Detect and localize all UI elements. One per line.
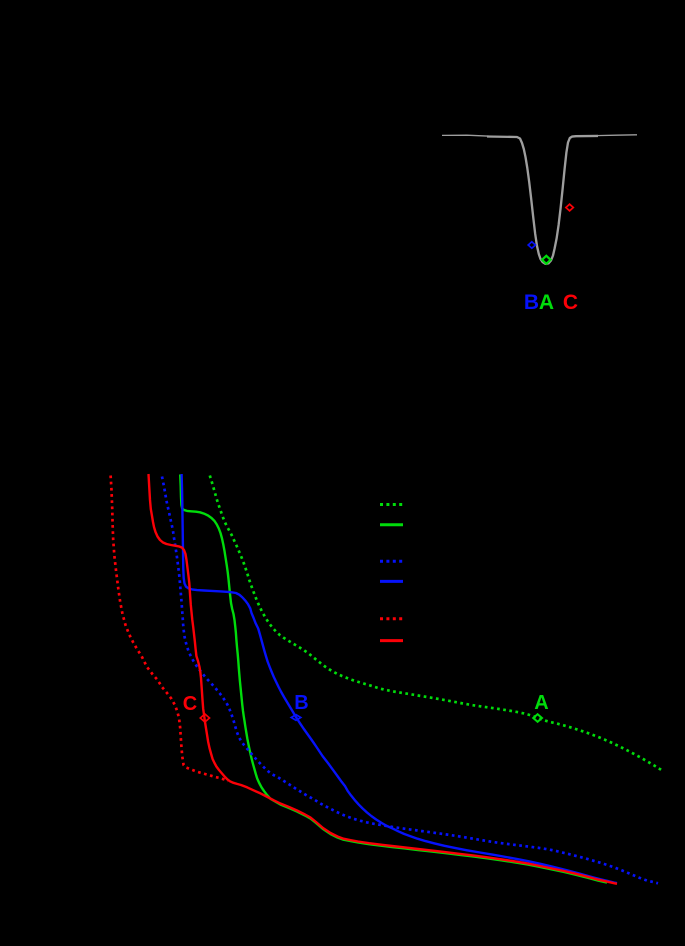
inset light curve: transit dip (thick) xyxy=(487,136,598,264)
svg-text:C: C xyxy=(183,693,197,715)
svg-text:A: A xyxy=(539,291,554,314)
legend line: green solid xyxy=(380,523,403,526)
inset marker: green diamond (A, bottom of transit) xyxy=(542,256,551,264)
main curve: red dotted (component C, no-extinction model) xyxy=(111,476,228,782)
svg-text:C: C xyxy=(563,291,578,314)
inset marker: blue diamond (B contact point) xyxy=(528,242,535,248)
main marker: red diamond on red solid curve xyxy=(200,714,209,722)
svg-text:B: B xyxy=(524,291,539,314)
legend line: red dotted xyxy=(380,617,403,620)
inset light curve: left continuum (thin) xyxy=(442,135,490,136)
svg-text:B: B xyxy=(294,692,308,714)
main curve: blue dotted (component B, no-extinction model) xyxy=(162,477,658,884)
legend line: red solid xyxy=(380,639,403,642)
main curve: red solid (component C) xyxy=(149,474,618,884)
legend line: green dotted xyxy=(380,503,403,506)
main marker: blue diamond on blue solid curve xyxy=(291,715,301,721)
legend line: blue dotted xyxy=(380,560,403,563)
legend line: blue solid xyxy=(380,580,403,583)
main curve: green dotted (component A, no-extinction model) xyxy=(210,476,663,772)
main marker: green diamond on green dotted curve xyxy=(533,714,542,722)
main curve: blue solid (component B) xyxy=(182,474,617,883)
svg-text:A: A xyxy=(534,692,548,714)
inset light curve: right continuum (thin) xyxy=(596,134,637,137)
main curve: green solid (component A) xyxy=(180,475,607,883)
inset marker: red diamond (C contact point) xyxy=(566,204,573,211)
